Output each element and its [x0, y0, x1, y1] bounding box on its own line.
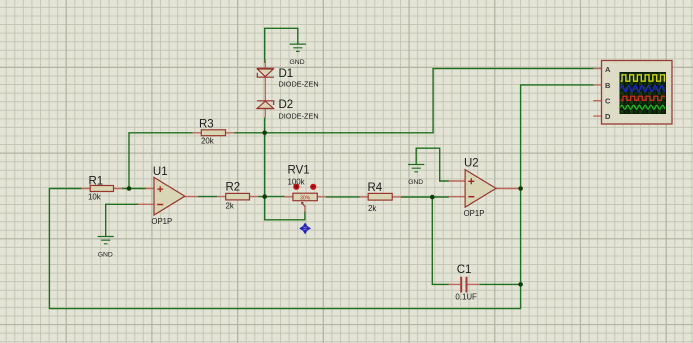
svg-text:R4: R4 [368, 182, 383, 194]
svg-text:C: C [605, 97, 611, 106]
svg-text:A: A [605, 65, 611, 74]
svg-text:C1: C1 [457, 264, 472, 276]
svg-text:DIODE-ZEN: DIODE-ZEN [279, 80, 319, 89]
svg-text:D2: D2 [279, 99, 294, 111]
svg-text:GND: GND [98, 251, 113, 258]
svg-text:U1: U1 [153, 166, 168, 178]
svg-text:OP1P: OP1P [151, 217, 172, 226]
svg-text:U2: U2 [464, 157, 479, 169]
svg-text:D1: D1 [279, 68, 294, 80]
svg-text:OP1P: OP1P [464, 209, 485, 218]
svg-text:30%: 30% [300, 195, 311, 201]
svg-text:GND: GND [408, 179, 423, 186]
svg-text:10k: 10k [88, 192, 101, 201]
svg-text:R3: R3 [199, 118, 214, 130]
svg-text:B: B [605, 81, 611, 90]
svg-text:100k: 100k [288, 177, 305, 186]
svg-text:0.1UF: 0.1UF [455, 293, 477, 302]
svg-text:2k: 2k [226, 201, 234, 210]
svg-text:2k: 2k [368, 204, 376, 213]
svg-text:R1: R1 [89, 175, 104, 187]
svg-text:RV1: RV1 [288, 164, 310, 176]
svg-text:DIODE-ZEN: DIODE-ZEN [279, 112, 319, 121]
svg-text:GND: GND [290, 59, 305, 66]
svg-text:D: D [605, 112, 611, 121]
svg-text:20k: 20k [201, 136, 214, 145]
svg-text:R2: R2 [226, 182, 241, 194]
